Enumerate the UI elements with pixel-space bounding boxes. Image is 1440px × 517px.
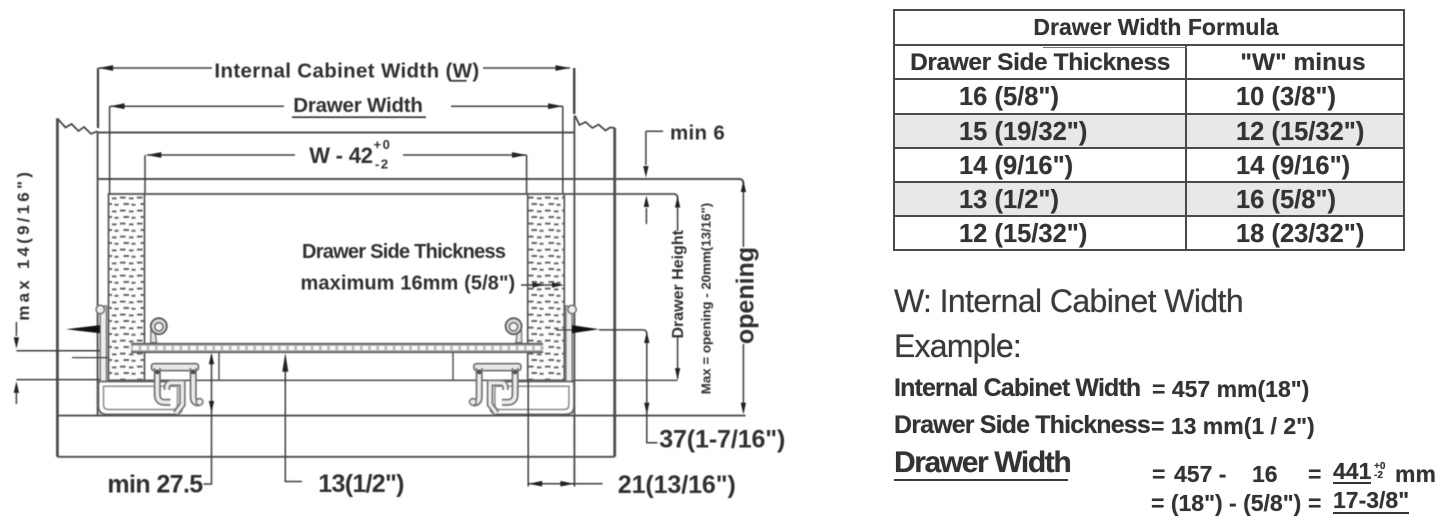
svg-text:min 6: min 6	[670, 122, 725, 145]
example row: Drawer Width result	[894, 446, 1068, 481]
cabinet left side panel outer face	[56, 118, 59, 456]
cabinet right panel top break squiggle	[575, 115, 615, 130]
slide drawer rail S-profile	[167, 383, 183, 414]
cabinet left panel top break squiggle	[57, 118, 97, 133]
svg-text:+0: +0	[374, 137, 392, 152]
dim Drawer Height line upper	[677, 198, 679, 231]
dim W-42 extension lines	[144, 155, 146, 193]
slide bottom tube outer	[99, 382, 183, 415]
cabinet bottom panel top line E	[57, 415, 745, 417]
drawer side bottom line D	[109, 379, 678, 381]
svg-text:min 27.5: min 27.5	[107, 471, 203, 499]
cabinet left panel inner face	[97, 131, 99, 415]
RIGHT TABLE : Drawer Width Formula	[893, 9, 1405, 251]
right drawer side section (hatched)	[528, 194, 565, 380]
slide hat right leg	[193, 368, 199, 403]
hat right leg foot bulb	[196, 399, 203, 406]
cabinet bottom panel bottom line F	[57, 456, 614, 458]
mount arrow right (bold)	[572, 325, 599, 333]
example row: Internal Cabinet Width value	[894, 374, 1140, 403]
formula line 2	[1151, 490, 1301, 517]
dim Internal Cabinet Width line	[99, 67, 212, 69]
formula line 1	[1152, 461, 1165, 488]
svg-text:maximum 16mm (5/8"): maximum 16mm (5/8")	[301, 273, 516, 295]
right slide assembly (mirror)	[470, 305, 577, 414]
svg-text:-2: -2	[375, 157, 390, 172]
dim 13 leader vertical with long arrow	[285, 360, 302, 482]
left drawer side section (hatched)	[109, 194, 145, 380]
svg-text:max 14(9/16"): max 14(9/16")	[14, 169, 33, 321]
mount reference line to 37 dim	[599, 330, 647, 334]
dim ICW arrowheads	[99, 65, 114, 71]
svg-text:opening: opening	[732, 247, 760, 344]
svg-text:13(1/2"): 13(1/2")	[318, 470, 404, 498]
dim 37 vertical with arrows	[647, 334, 658, 443]
dim DW arrowheads	[110, 103, 125, 109]
cabinet right side panel outer face	[613, 128, 616, 457]
dim min6 leader and arrow	[646, 130, 663, 132]
dim min27.5 leader vertical	[204, 355, 212, 484]
left slide assembly	[96, 305, 203, 414]
svg-text:Drawer Side Thickness: Drawer Side Thickness	[302, 241, 506, 263]
dim opening line lower	[742, 344, 744, 412]
slide hat left leg	[157, 368, 170, 402]
dim Drawer Height line lower	[677, 337, 679, 379]
dim min6 lower stub arrow	[645, 208, 647, 224]
slide front hook ring	[151, 318, 167, 334]
slide bottom tube inner wall	[104, 386, 178, 409]
svg-text:W - 42: W - 42	[309, 143, 373, 168]
dim ICW extension lines	[97, 68, 99, 128]
example row: Drawer Side Thickness value	[894, 411, 1150, 440]
slide cabinet flange	[100, 306, 106, 413]
svg-text:Internal Cabinet Width (W): Internal Cabinet Width (W)	[214, 60, 479, 83]
label leader: drawer side thickness arrows	[521, 284, 560, 286]
slide front hook stem	[151, 331, 157, 343]
slide hat top bar	[152, 364, 199, 371]
slide flange top knob	[96, 305, 104, 313]
dim Drawer Width line	[110, 105, 284, 107]
dim opening line upper	[742, 183, 744, 247]
svg-text:Max = opening - 20mm(13/16"): Max = opening - 20mm(13/16")	[699, 203, 714, 394]
hat leg rivet dots	[155, 370, 160, 375]
dim max14 upper: arrow down to line	[15, 322, 17, 336]
svg-text:Drawer Height: Drawer Height	[670, 229, 687, 338]
RIGHT EXAMPLE TEXT BLOCK	[894, 283, 1243, 320]
dim 21 extension line left	[527, 380, 529, 486]
dim W-42 line	[147, 154, 295, 156]
svg-text:21(13/16"): 21(13/16")	[618, 471, 736, 499]
dim DW extension lines	[109, 106, 111, 193]
short mounting screw line	[72, 357, 108, 359]
dim W-42 arrowheads	[147, 152, 162, 158]
cabinet rail underside line B	[98, 179, 744, 184]
drawer top edge line C	[108, 194, 678, 198]
cabinet right panel inner face	[573, 116, 575, 487]
cabinet top line A	[98, 132, 575, 134]
dim 21 dimension line with arrows	[528, 483, 602, 485]
LEFT TECHNICAL DIAGRAM	[0, 0, 880, 517]
drawer bottom panel strip	[131, 343, 543, 352]
drawer bottom recess right edge	[452, 353, 454, 381]
mount arrow left (bold)	[66, 325, 100, 333]
svg-text:37(1-7/16"): 37(1-7/16")	[659, 426, 785, 454]
drawer bottom recess left edge	[218, 353, 220, 381]
svg-text:Drawer Width: Drawer Width	[293, 94, 423, 117]
dim max14 lower: line and arrow up	[16, 379, 100, 381]
